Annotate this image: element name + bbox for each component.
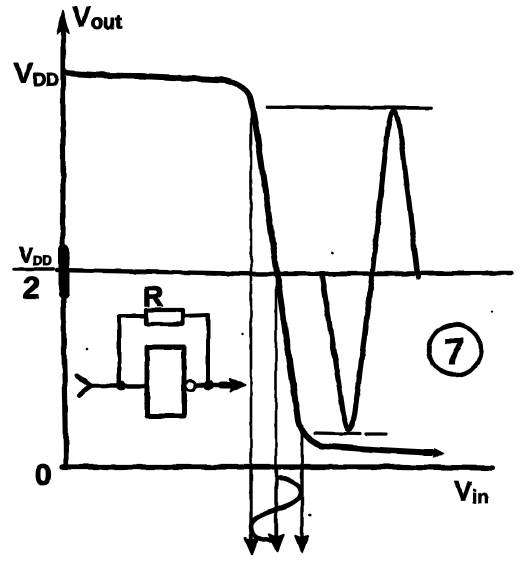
fraction bar <box>14 267 53 271</box>
inset: junction dot input node <box>116 381 126 391</box>
construction line A (threshold) <box>250 112 253 468</box>
x-axis Vin <box>62 467 492 468</box>
VDD/2 horizontal line <box>57 270 511 274</box>
svg-text:R: R <box>143 281 163 312</box>
svg-text:VDD: VDD <box>19 244 52 268</box>
inset: wire resistor right <box>183 315 208 316</box>
scan speck <box>491 311 493 313</box>
construction line C <box>301 425 304 468</box>
transfer curve (VTC) <box>65 73 436 453</box>
inset: inverter U1 body <box>147 347 184 416</box>
svg-text:2: 2 <box>23 272 40 305</box>
arrowhead line A <box>245 538 258 554</box>
y-axis Vout <box>63 32 66 466</box>
lower level dash line <box>315 433 386 434</box>
scan speck <box>184 369 186 371</box>
svg-text:VDD: VDD <box>14 57 59 90</box>
construction line B <box>275 274 278 468</box>
inset: left feedback wire <box>117 316 121 386</box>
scan speck <box>242 333 244 335</box>
svg-text:Vin: Vin <box>454 476 489 508</box>
inset: input fork <box>77 376 91 395</box>
arrowhead line B <box>269 535 283 551</box>
inset: right feedback wire <box>206 315 210 385</box>
inset: junction dot output node <box>204 380 214 390</box>
inset: resistor R body <box>146 310 183 324</box>
arrowhead line C <box>296 536 308 551</box>
input waveform squiggle below axis <box>251 477 301 541</box>
scan speck <box>309 514 312 517</box>
scan speck <box>86 348 89 351</box>
output sine wave <box>322 111 418 430</box>
y-axis arrowhead <box>57 10 69 34</box>
svg-text:0: 0 <box>35 459 52 492</box>
inset: output wire <box>196 383 232 387</box>
scan speck <box>331 252 334 255</box>
inset: inverter output bubble <box>186 381 196 391</box>
svg-text:Vout: Vout <box>72 1 122 34</box>
y-axis thick tick at VDD/2 <box>59 249 70 294</box>
svg-text:7: 7 <box>444 331 465 372</box>
inset: input wire <box>91 384 147 388</box>
VTC end arrowhead <box>425 449 436 456</box>
figure number circle 7 <box>429 325 481 375</box>
inset: wire resistor left <box>119 314 146 318</box>
inset: output arrowhead <box>230 379 245 392</box>
upper level dash line <box>267 107 431 108</box>
